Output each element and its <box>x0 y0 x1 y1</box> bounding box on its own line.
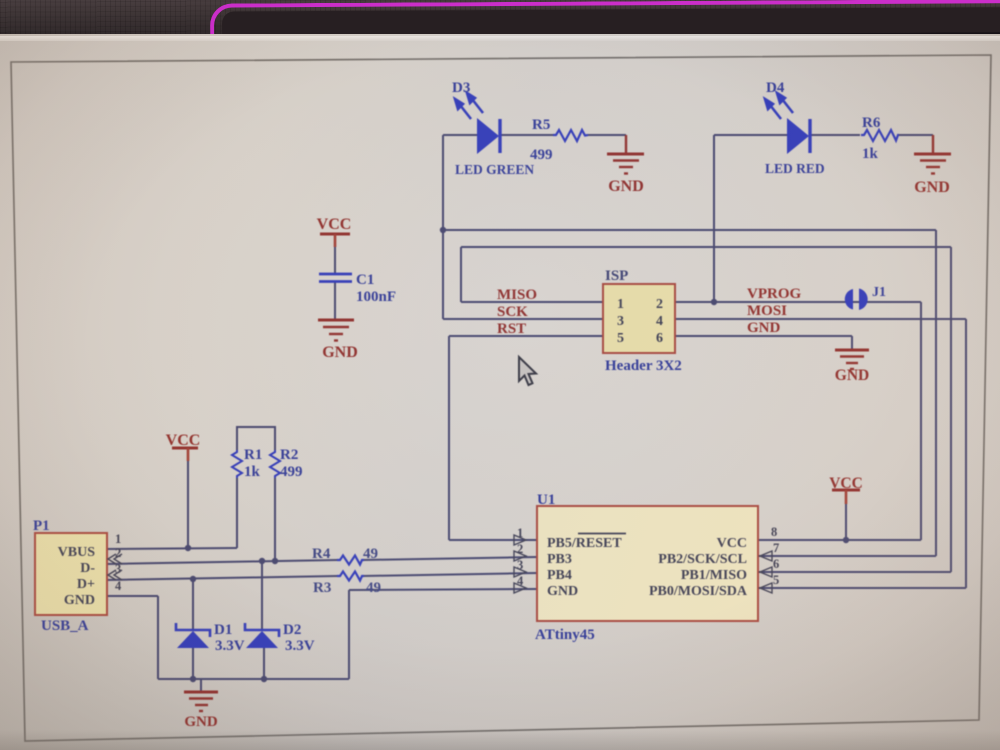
junction R2 D- <box>272 558 278 564</box>
wire R1 bottom <box>236 478 238 548</box>
wire R6 to GND <box>898 134 933 136</box>
wire D4 anode vertical <box>713 135 715 302</box>
LED D3 <box>455 93 500 154</box>
ground GND (R5) <box>607 135 644 174</box>
wire MISO to pin6 <box>758 571 951 573</box>
wire MISO left vertical <box>460 247 462 302</box>
resistor R4 <box>337 556 364 565</box>
junction D2 GND <box>261 676 267 682</box>
pin arrow U1 pin3 <box>514 567 526 577</box>
diode D1 zener <box>176 623 210 648</box>
IC U1 ATtiny45 box <box>537 506 758 621</box>
capacitor C1 <box>319 274 352 282</box>
pin arrow U1 pin6 <box>760 567 772 577</box>
pin arrow U1 pin7 <box>760 551 772 561</box>
power VCC (right) <box>832 489 860 492</box>
overline RESET <box>578 533 626 535</box>
wire RST to ISP pin5 <box>449 335 603 337</box>
junction D1 D+ <box>190 576 196 582</box>
wire SCK net top horizontal <box>443 229 936 231</box>
connector P1 USB box <box>35 533 107 615</box>
pin arrow U1 pin1 <box>514 535 526 545</box>
mouse cursor <box>519 357 536 385</box>
wire GND left vertical <box>157 596 159 679</box>
wire MOSI to U1 pin5 <box>758 587 966 589</box>
wire MISO top horizontal <box>461 246 951 248</box>
ground GND (bottom) <box>184 692 218 711</box>
jumper J1 <box>845 289 868 311</box>
wire VCC-left stem <box>187 450 189 548</box>
wire USB GND pin <box>105 595 158 597</box>
wire MISO right vertical <box>950 247 952 572</box>
resistor R5 <box>553 130 588 141</box>
wire GND bottom horizontal <box>158 678 349 680</box>
junction VCC pin8 <box>843 537 849 543</box>
wire D+ line right <box>362 573 537 576</box>
resistor R3 <box>337 572 364 581</box>
wire RST to U1 pin1 <box>449 539 537 541</box>
ground GND (C1) <box>318 320 354 341</box>
junction SCK top <box>440 227 446 233</box>
wire ISP pin6 to GND <box>675 335 852 337</box>
wire D2 cathode vertical <box>261 561 263 630</box>
junction D4 VPROG <box>711 299 717 305</box>
wire SCK net to pin7 <box>758 555 936 557</box>
wire D4 cathode to R6 <box>810 134 860 136</box>
wire GND to U1 pin4 <box>349 589 537 590</box>
wire VPROG right vertical <box>920 302 922 540</box>
wire VCC stem C1 <box>334 233 336 274</box>
wire R2 bottom <box>274 478 276 561</box>
wire SCK to ISP pin3 <box>443 318 603 320</box>
pin arrow U1 pin2 <box>514 551 526 561</box>
wire ISP GND stub down <box>851 336 853 350</box>
pin arrow U1 pin5 <box>760 583 772 593</box>
pin arrow P1 pin2 <box>108 554 122 564</box>
wire D1 anode vertical <box>192 648 194 679</box>
power VCC (C1) <box>320 233 350 236</box>
wire C1 to GND <box>334 281 336 320</box>
wire VPROG from ISP pin2 <box>675 301 921 303</box>
wire SCK net right vertical <box>935 230 937 556</box>
wire VCC to U1 pin8 <box>758 539 921 541</box>
wire GND right vertical <box>348 590 350 679</box>
wire R1 R2 top loop <box>237 427 275 450</box>
connector ISP header box <box>603 284 675 353</box>
resistor R1 <box>232 450 242 478</box>
resistor R6 <box>861 130 899 141</box>
wire MISO to ISP pin1 <box>461 301 603 303</box>
wire VCC right stem <box>845 500 847 540</box>
wire D- line left <box>105 560 337 564</box>
pin arrow U1 pin4 <box>514 583 526 593</box>
wire D3 cathode to R5 <box>500 134 554 136</box>
junction VCC VBUS <box>185 545 191 551</box>
wire R5 to GND <box>588 134 626 136</box>
wire GND symbol stem bottom <box>200 679 202 692</box>
diode D2 zener <box>245 623 279 648</box>
wire VBUS <box>105 548 237 549</box>
resistor R2 <box>270 450 280 478</box>
wire RST vertical <box>448 336 450 540</box>
power VCC (left) <box>172 447 198 450</box>
wire D3 anode vertical <box>442 135 444 319</box>
ground GND (ISP) <box>835 350 869 369</box>
wire D3 anode horizontal <box>443 134 478 136</box>
junction D2 D- <box>259 558 265 564</box>
wire D2 anode vertical <box>263 648 265 679</box>
wire D1 cathode vertical <box>192 579 194 630</box>
LED D4 <box>765 93 810 154</box>
pin arrow P1 pin3 <box>108 570 122 580</box>
wire MOSI right vertical <box>965 319 967 588</box>
wire MOSI from ISP pin4 <box>675 318 966 320</box>
wire D+ line left <box>105 576 337 580</box>
wire D4 anode horizontal <box>714 134 787 136</box>
junction D1 GND <box>190 676 196 682</box>
ground GND (R6) <box>914 135 951 174</box>
wire D- line right <box>362 557 537 560</box>
